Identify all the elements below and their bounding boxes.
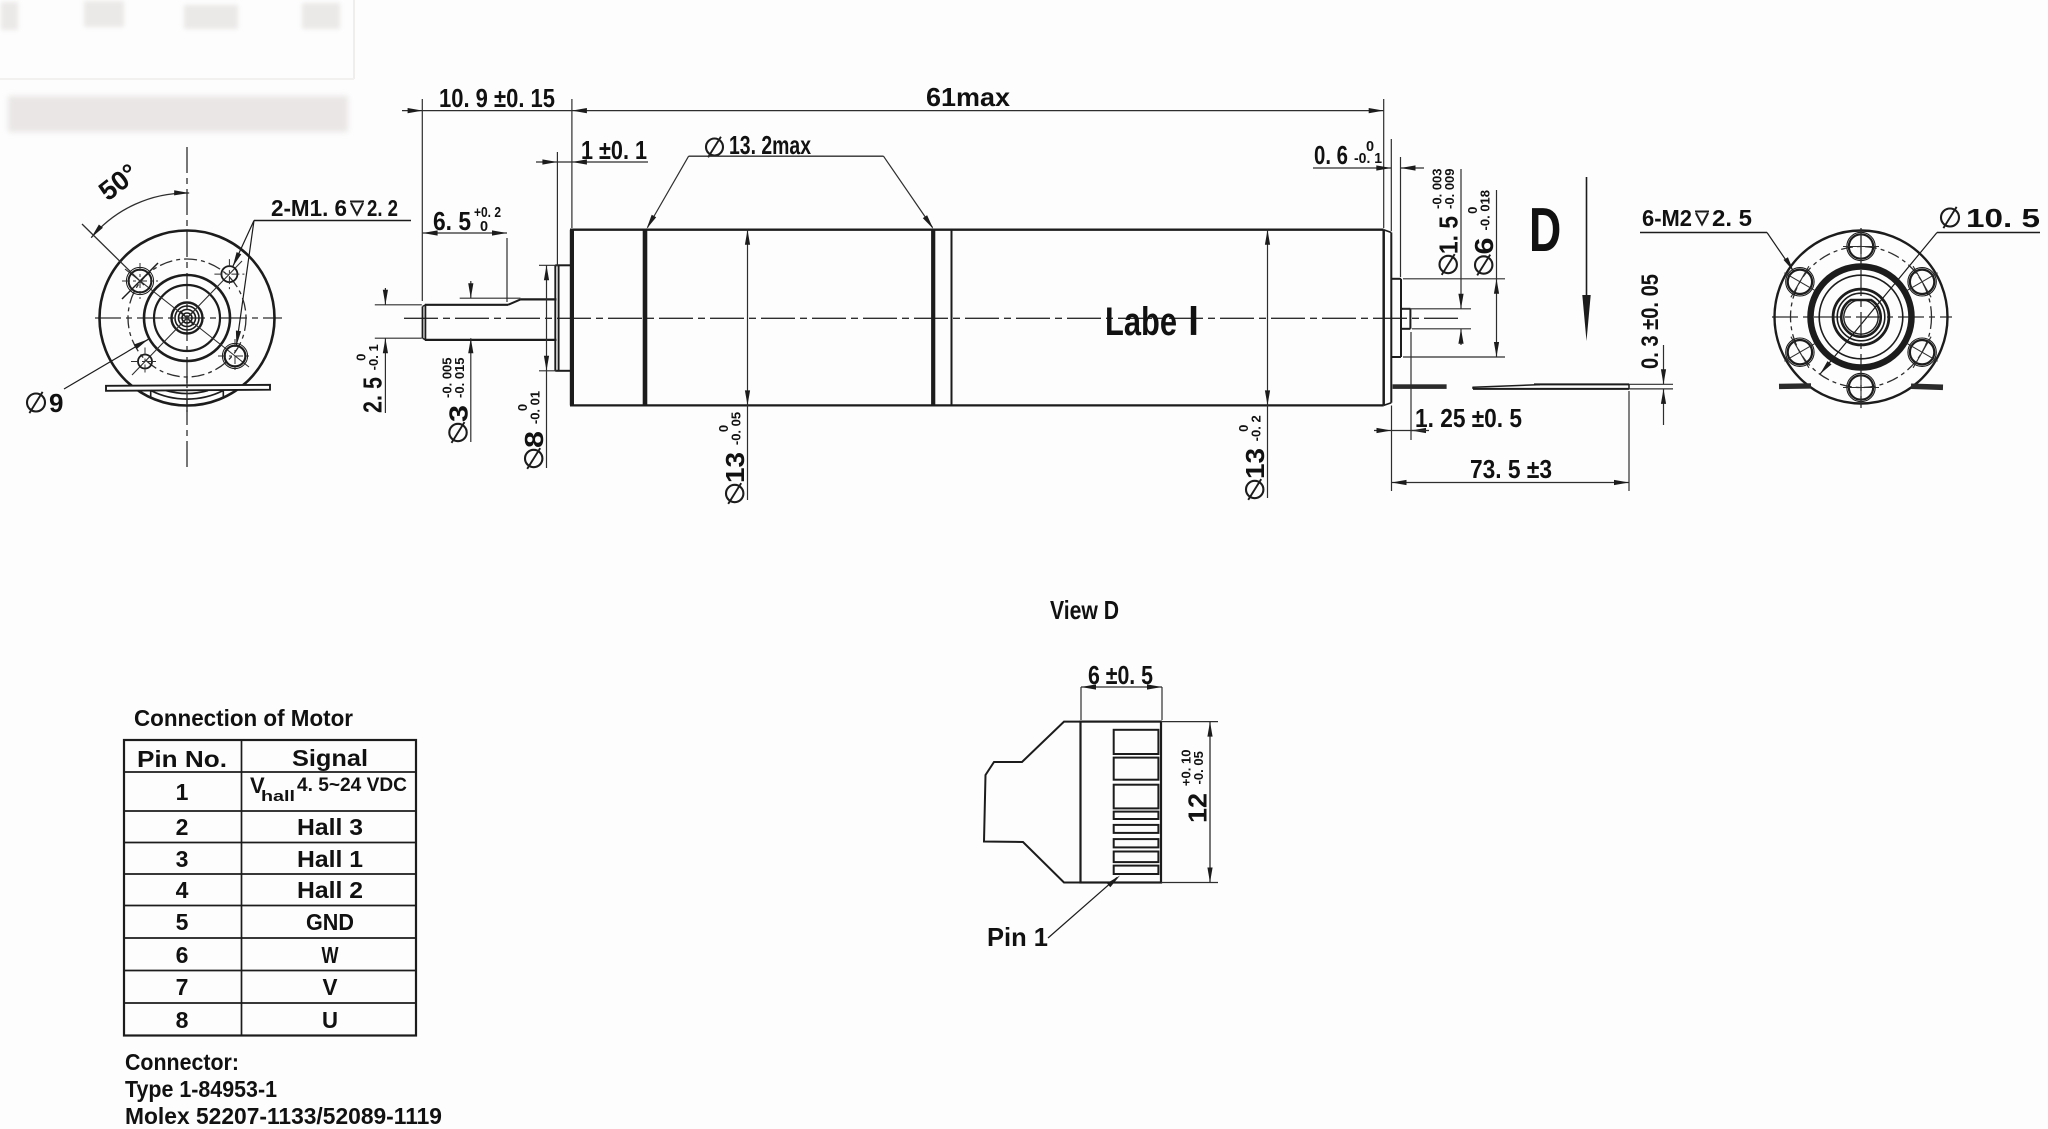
svg-text:1. 5: 1. 5 [1434,216,1464,254]
connector pin block [1081,722,1162,883]
label dia 9 text [27,394,45,412]
svg-text:Pin 1: Pin 1 [987,922,1048,952]
section line thin [951,230,953,406]
svg-text:6 ±0. 5: 6 ±0. 5 [1088,660,1153,690]
svg-text:-0. 01: -0. 01 [528,391,543,424]
svg-text:Hall 2: Hall 2 [297,877,363,903]
svg-text:-0. 05: -0. 05 [729,412,744,445]
dimension 0.6 0/-0.1 [1313,167,1391,169]
dimension dia 13 -0.2 [1267,230,1269,498]
right view bearing circle [1833,289,1889,345]
svg-text:View D: View D [1050,595,1119,625]
right view plate tab right [1911,383,1943,390]
rear hub dia 6 [1391,278,1401,280]
left view hole top-left with slash [129,270,152,293]
svg-text:-0. 015: -0. 015 [452,357,467,397]
left view horizontal centerline [95,317,282,319]
dimension 6.5 +0.2/0 [423,232,507,234]
label 2-M1.6 leader to top hole [233,221,254,267]
svg-text:12: 12 [1183,793,1213,823]
right view six M2 holes [1849,234,1873,258]
label 2-M1.6 leader to bottom hole [236,221,254,346]
dimension 73.5 +-3 [1392,482,1630,484]
extension line motor right end [1383,99,1385,228]
faint frame lines [353,0,355,79]
left view diagonal centerline B [125,269,249,367]
callout dia 13.2max [706,139,723,156]
dimension 10.9 and 61max shared line [402,110,1384,112]
left view crimp arc end ticks [150,391,152,399]
svg-text:1: 1 [176,779,189,805]
svg-text:9: 9 [49,388,63,418]
dimension 0.3 +-0.05 [1629,383,1673,385]
faint watermark smudges top-left [1,1,340,30]
front flange dia 8 [554,265,556,371]
table row lines [124,771,416,773]
section line thick at gearbox joint [643,230,648,406]
left view shaft circles [172,303,203,334]
left view hole top-right (M1.6) [221,266,237,282]
svg-text:6: 6 [176,942,189,968]
left view bolt circle (dash-dot, dia 9) [128,259,246,377]
label dia 9 leader [64,339,148,389]
dimension 12 +0.10/-0.05 [1161,721,1218,723]
right view D-hole with flat [1841,300,1880,337]
rear shaft dia 1.5 [1401,308,1410,310]
left view mounting plate edge [106,385,270,391]
dimension dia 6 [1403,278,1505,280]
svg-text:6. 5: 6. 5 [433,206,471,236]
label 2-M1.6 underline [254,220,411,222]
left view hole bottom-right (M1.6) [225,346,246,367]
svg-text:U: U [322,1007,338,1033]
table frame [124,740,416,1036]
svg-text:1. 25 ±0. 5: 1. 25 ±0. 5 [1415,403,1522,433]
left view center cross [180,311,194,325]
svg-text:6-M2: 6-M2 [1642,205,1692,231]
svg-text:1 ±0. 1: 1 ±0. 1 [581,135,647,165]
svg-text:61max: 61max [926,82,1011,112]
lead wire left segment [1393,384,1447,389]
svg-text:2. 5: 2. 5 [358,377,388,413]
right view vertical centerline [1860,228,1862,408]
dimension dia 8 [539,264,557,266]
right view plate tab left [1779,383,1811,389]
right view bolt circle dash-dot dia 10.5 [1791,247,1932,388]
svg-text:V: V [323,974,339,1000]
svg-text:l: l [1188,300,1199,344]
svg-text:3: 3 [176,846,189,872]
svg-text:Type 1-84953-1: Type 1-84953-1 [125,1076,277,1102]
right view heavy ring [1811,267,1912,368]
svg-text:Molex 52207-1133/52089-1119: Molex 52207-1133/52089-1119 [125,1103,442,1129]
right view D-hole inner circle [1844,300,1878,334]
dimension 2.5 flat height [375,304,422,306]
svg-text:2: 2 [176,814,189,840]
motor end cap line [1390,233,1392,403]
side view centerline [404,317,1462,319]
svg-text:Pin No.: Pin No. [137,746,227,772]
right view horizontal centerline [1772,316,1952,318]
svg-text:Connection of Motor: Connection of Motor [134,705,353,731]
svg-text:-0. 05: -0. 05 [1191,751,1206,784]
svg-text:13: 13 [720,452,750,483]
left view diagonal centerline A [132,261,242,375]
left view boss circle [144,275,230,361]
dimension 6 +-0.5 [1081,686,1162,688]
dimension dia 1.5 [1403,308,1471,310]
svg-text:Hall 1: Hall 1 [297,846,363,872]
svg-text:73. 5 ±3: 73. 5 ±3 [1470,454,1552,484]
svg-text:hall: hall [261,789,295,805]
left view crimp arcs below plate [166,391,208,394]
right view bearing inner circle [1837,293,1885,341]
svg-text:GND: GND [306,909,354,935]
svg-text:5: 5 [176,909,189,935]
dimension 50 degrees arc [91,193,189,238]
svg-text:Connector:: Connector: [125,1049,239,1075]
svg-text:Hall 3: Hall 3 [297,814,363,840]
svg-text:0: 0 [480,219,488,235]
dimension 50 degrees radial line [82,224,144,285]
svg-text:4. 5~24 VDC: 4. 5~24 VDC [297,775,407,796]
motor body bottom edge [570,404,1384,406]
svg-text:-0. 009: -0. 009 [1442,168,1457,208]
right view outer circle [1775,231,1948,404]
svg-text:2. 5: 2. 5 [1712,205,1752,231]
connector housing outline [984,722,1081,883]
table column divider [241,740,243,1036]
section line thick at motor joint [931,230,935,406]
motor body right edge [1382,230,1385,406]
svg-text:13. 2max: 13. 2max [729,130,811,160]
svg-text:13: 13 [1240,448,1270,479]
svg-text:2-M1. 6: 2-M1. 6 [271,195,347,221]
dimension dia 3 [460,297,521,299]
left view inner boss circle [154,285,220,351]
svg-text:Signal: Signal [292,745,368,771]
svg-text:-0. 2: -0. 2 [1249,415,1264,441]
lead wire right segment [1534,383,1629,385]
left view vertical centerline [186,147,188,468]
svg-text:2. 2: 2. 2 [367,195,398,221]
motor body top edge [570,229,1384,231]
svg-text:8: 8 [519,431,549,448]
extension line gearbox face [571,99,573,228]
svg-text:Labe: Labe [1105,300,1177,344]
svg-text:8: 8 [176,1007,189,1033]
connector pins [1114,730,1159,754]
svg-text:10. 5: 10. 5 [1966,203,2040,233]
svg-text:7: 7 [176,974,189,1000]
svg-text:-0. 018: -0. 018 [1478,190,1493,230]
svg-text:10. 9 ±0. 15: 10. 9 ±0. 15 [439,83,555,113]
svg-text:6: 6 [1469,238,1499,255]
svg-text:W: W [322,942,339,968]
svg-text:D: D [1529,196,1561,265]
front shaft dia 3 with flat [425,339,557,341]
svg-text:0. 6: 0. 6 [1314,140,1348,170]
svg-text:-0. 1: -0. 1 [1354,151,1382,167]
svg-text:-0. 1: -0. 1 [366,344,381,370]
dimension dia 13 -0.05 [747,230,749,500]
left view centerline over plate [186,376,188,412]
gearbox left face (thick) [570,230,574,406]
dimension 1.25 +-0.5 [1374,430,1415,432]
view arrow D line [1586,177,1588,299]
label dia 10.5 [1941,209,1959,227]
dimension 1 +-0.1 [536,161,648,163]
svg-text:4: 4 [176,877,189,903]
extension line left of shaft [421,99,423,301]
right view ring outer thin circle [1819,275,1903,359]
left view outer circle (gearbox face, dia 13) [100,231,275,406]
faint watermark band [8,96,348,132]
left view hole bottom-left [138,355,152,369]
svg-text:0. 3 ±0. 05: 0. 3 ±0. 05 [1637,274,1664,369]
svg-text:3: 3 [443,405,473,422]
